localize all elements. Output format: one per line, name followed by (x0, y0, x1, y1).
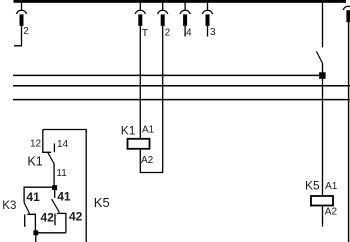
junction node on L1 (319, 72, 326, 79)
wire below K5 coil (322, 206, 324, 227)
svg-text:K3: K3 (2, 200, 16, 212)
svg-text:11: 11 (56, 168, 67, 179)
junction node A (52, 185, 57, 190)
switch arm (316, 51, 322, 63)
contact K3 fixed tick (24, 214, 26, 226)
contact K3 shelf and lead 42 (27, 214, 35, 232)
svg-text:41: 41 (57, 190, 71, 204)
contact K1 pin 11 wire (53, 163, 55, 187)
svg-text:42: 42 (69, 210, 83, 224)
svg-text:T: T (142, 27, 149, 39)
switch contact (top right) (322, 3, 324, 48)
bottom wire joining contacts (36, 232, 66, 234)
contact K1 pin 14 tick (53, 144, 55, 153)
top supply bus (14, 0, 347, 3)
wire down right edge (348, 22, 350, 242)
connector 2 (middle) (158, 3, 168, 26)
contact K1 arm (48, 153, 54, 164)
contact K5 shelf and lead 42 (57, 213, 66, 232)
svg-text:K1: K1 (121, 124, 136, 138)
svg-text:A1: A1 (142, 124, 155, 135)
svg-text:12: 12 (30, 139, 42, 150)
wire from connector 2 down and left (14, 26, 22, 46)
bus line L3 (13, 99, 350, 101)
wire switch to K5 coil (322, 63, 324, 195)
svg-text:A2: A2 (325, 207, 338, 218)
svg-text:41: 41 (26, 190, 40, 204)
coil K1 (128, 139, 150, 149)
svg-text:14: 14 (57, 139, 69, 150)
wire junction B to bottom edge (35, 233, 37, 242)
svg-text:A2: A2 (141, 155, 154, 166)
contact K5 lead from junction A (54, 190, 56, 198)
contact K3 arm (24, 203, 29, 214)
svg-text:K5: K5 (305, 178, 320, 192)
bus line L2 (13, 85, 350, 87)
svg-text:K1: K1 (27, 155, 42, 169)
wire T to K1 coil (139, 26, 141, 139)
contact K5 fixed tick (54, 214, 56, 226)
svg-text:2: 2 (165, 28, 171, 39)
svg-text:K5: K5 (94, 195, 110, 210)
connector T (135, 3, 145, 26)
svg-text:2: 2 (23, 26, 29, 37)
svg-text:42: 42 (41, 210, 55, 224)
stub wire below connector 4 (184, 26, 186, 37)
contact K1 pin 12 lead (43, 130, 51, 153)
stub wire below connector 3 (207, 26, 209, 37)
connector (top right, clipped) (343, 6, 350, 22)
wire junction A left to K3 contact (24, 187, 54, 202)
svg-text:A1: A1 (325, 181, 338, 192)
contact K5 arm (52, 199, 60, 213)
connector 3 (202, 3, 212, 26)
svg-text:3: 3 (210, 27, 216, 38)
connector X1 pin 2 (top left) (16, 3, 26, 26)
bus line L1 (13, 74, 322, 76)
svg-text:4: 4 (186, 27, 192, 38)
wire K1 A2 down, right to wire 2 (140, 26, 162, 173)
connector 4 (180, 3, 190, 26)
junction node B (33, 230, 38, 235)
coil K5 (311, 196, 333, 206)
wire from contact 12 across and down (branch to bottom edge) (43, 130, 86, 242)
